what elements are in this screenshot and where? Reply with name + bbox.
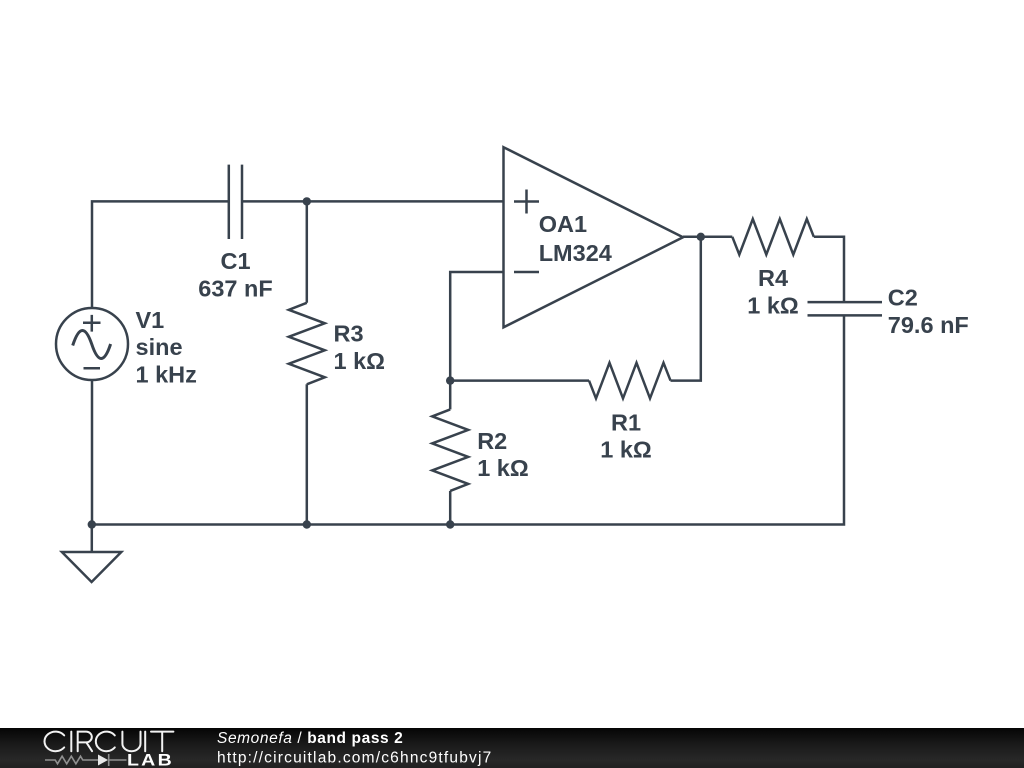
svg-text:OA1: OA1 [539,211,587,237]
voltage source V1 [56,308,128,380]
label V1 sine 1 kHz [136,307,197,388]
resistor R4 [732,219,814,255]
svg-text:sine: sine [136,334,183,360]
capacitor C1 [229,165,242,239]
wire R4 right to C2 top [814,237,844,302]
node: feedback junction dot [446,376,454,384]
svg-text:R4: R4 [758,265,788,291]
label R3 1 kOhm [334,321,386,374]
label R1 1 kOhm [600,409,652,462]
wire op-amp output to R4 left [683,236,732,239]
logo CIRCUIT [45,732,174,752]
svg-text:1 kΩ: 1 kΩ [334,348,386,374]
svg-text:Semonefa / band pass 2: Semonefa / band pass 2 [217,730,403,747]
label C1 637 nF [198,248,272,301]
node: ground-rail R2 dot [446,520,454,528]
svg-text:V1: V1 [136,307,165,333]
svg-text:LM324: LM324 [539,240,612,266]
wire feedback node to R1 left [450,379,589,382]
svg-text:79.6 nF: 79.6 nF [888,312,969,338]
label OA1 LM324 [539,211,612,266]
svg-text:R3: R3 [334,321,364,347]
svg-text:R2: R2 [477,428,507,454]
label R2 1 kOhm [477,428,529,481]
wire op-amp - input to feedback node [450,272,503,381]
svg-text:1 kΩ: 1 kΩ [600,437,652,463]
wire R2 bottom stub [449,491,452,525]
wire ground stem [91,525,94,553]
node: ground-rail R3 dot [303,520,311,528]
svg-text:1 kHz: 1 kHz [136,362,197,388]
label R4 1 kOhm [747,265,799,318]
wire C1 right plate to op-amp + input [242,200,504,203]
wire R1 right up to output node [671,237,701,381]
wire C2 bottom to ground rail [92,315,844,524]
logo diode triangle [98,755,108,766]
svg-text:1 kΩ: 1 kΩ [747,292,799,318]
resistor R1 [589,363,671,399]
wire V1 top to C1 left [92,201,229,309]
node: junction dot C1/R3 [303,197,311,205]
wire R3 bottom stub [306,384,309,524]
svg-text:1 kΩ: 1 kΩ [477,455,529,481]
svg-text:R1: R1 [611,409,641,435]
logo resistor-diode wire [45,754,127,766]
node: output junction dot [697,233,705,241]
resistor R3 [289,303,325,385]
footer bar [0,728,1024,768]
wire R3 top stub [306,201,309,302]
node: ground-rail left dot [88,520,96,528]
resistor R2 [432,409,468,491]
svg-text:http://circuitlab.com/c6hnc9tf: http://circuitlab.com/c6hnc9tfubvj7 [217,749,492,766]
ground [62,552,121,582]
wire V1 bottom to rail [91,380,94,525]
svg-text:LAB: LAB [127,750,174,768]
wire R2 top stub [449,381,452,410]
label C2 79.6 nF [888,285,969,338]
svg-text:637 nF: 637 nF [198,275,272,301]
op-amp OA1 [504,147,684,327]
capacitor C2 [808,302,883,315]
svg-text:C2: C2 [888,285,918,311]
svg-text:C1: C1 [220,248,250,274]
